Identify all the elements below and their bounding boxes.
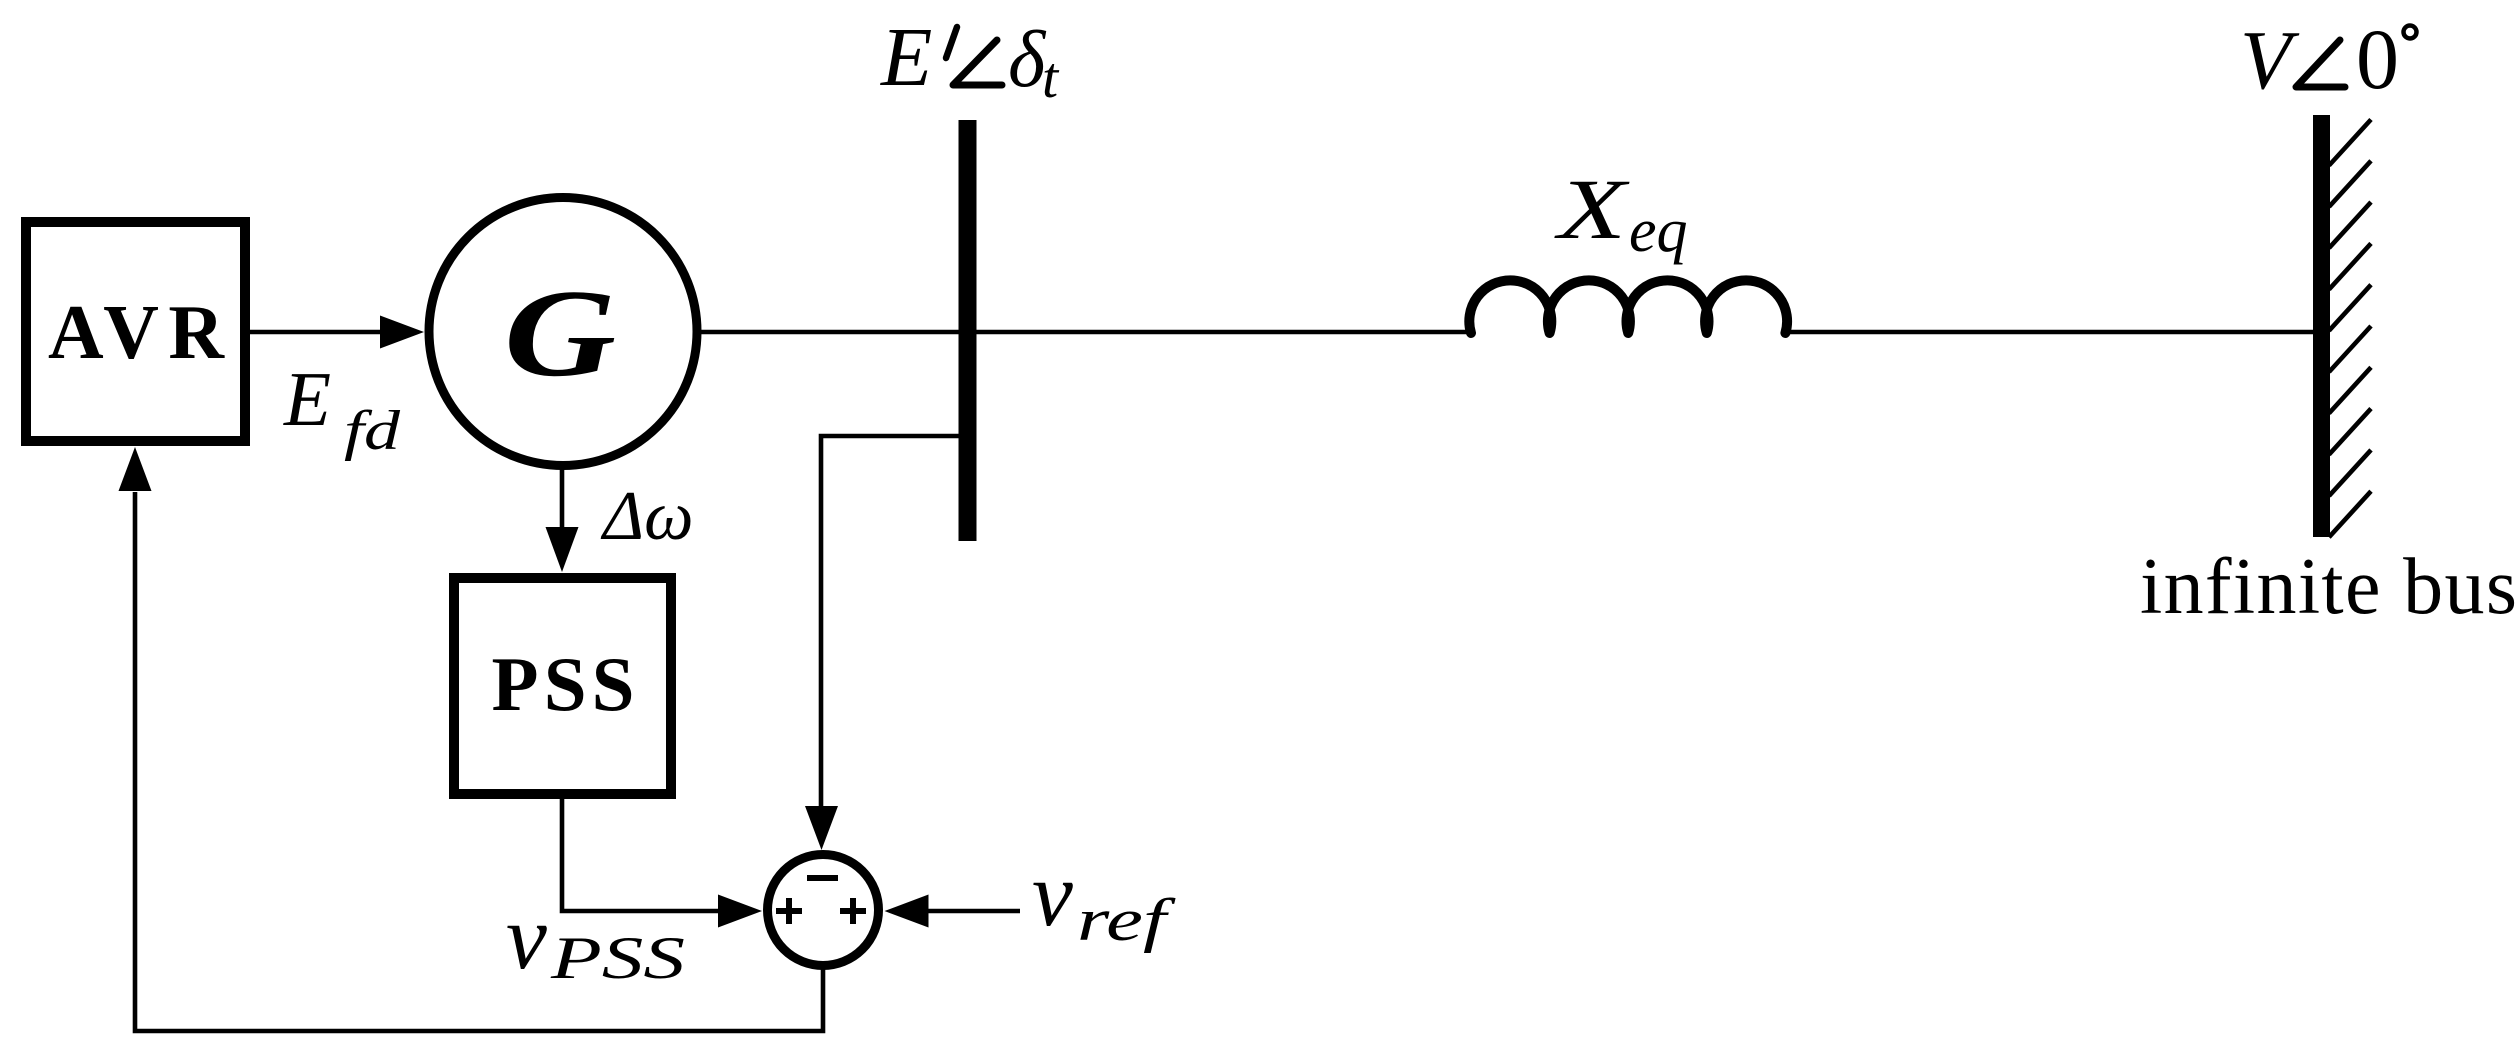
svg-text:G: G (504, 265, 616, 403)
svg-text:AVR: AVR (48, 289, 225, 375)
svg-text:Δω: Δω (600, 478, 694, 555)
svg-text:t: t (1042, 45, 1060, 110)
svg-text:ref: ref (1077, 887, 1176, 953)
svg-text:V: V (2240, 14, 2300, 107)
svg-text:eq: eq (1629, 197, 1688, 265)
svg-text:PSS: PSS (492, 641, 635, 727)
svg-text:E: E (880, 11, 932, 104)
svg-text:v: v (1032, 843, 1073, 945)
svg-text:fd: fd (344, 400, 401, 462)
svg-text:0: 0 (2356, 11, 2399, 107)
svg-text:infinite bus: infinite bus (2140, 543, 2517, 631)
svg-text:E: E (283, 356, 331, 442)
svg-text:v: v (506, 886, 547, 988)
svg-text:X: X (1554, 161, 1630, 257)
svg-text:PSS: PSS (550, 925, 685, 991)
